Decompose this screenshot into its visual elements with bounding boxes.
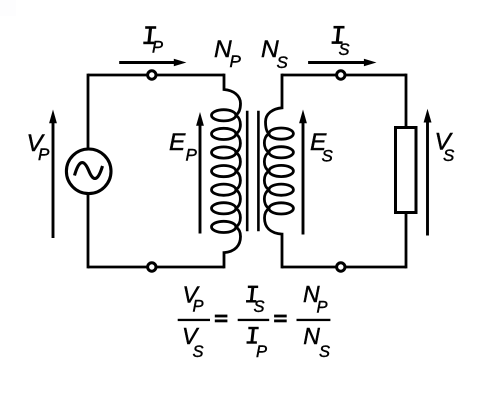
primary winding connector arcs	[236, 115, 241, 227]
label IS	[332, 26, 345, 43]
secondary winding stub top	[266, 74, 283, 134]
svg-text:P: P	[256, 343, 267, 361]
terminal node bottom-left	[148, 263, 156, 271]
secondary winding stub bottom	[265, 208, 283, 268]
primary winding stub bottom	[224, 227, 241, 269]
AC source sine symbol	[75, 163, 103, 179]
load resistor RL	[396, 128, 417, 213]
equation numerator IS	[246, 286, 258, 302]
primary winding stub top	[224, 74, 241, 116]
wire left vertical lower	[87, 194, 90, 269]
svg-text:S: S	[319, 343, 330, 361]
svg-text:S: S	[339, 41, 350, 59]
svg-text:P: P	[38, 145, 50, 164]
svg-text:P: P	[193, 298, 204, 316]
arrow ES (emf secondary)	[302, 123, 305, 235]
terminal node top-right	[337, 71, 345, 79]
wire top-left (source to primary winding)	[88, 74, 224, 77]
equation equals sign 1	[215, 315, 228, 318]
svg-text:S: S	[443, 146, 455, 165]
primary winding turn 1	[212, 110, 236, 121]
svg-text:N: N	[303, 323, 320, 349]
primary winding turn 4	[212, 166, 236, 177]
wire right vertical upper	[405, 74, 408, 129]
secondary winding turn 5	[269, 203, 293, 214]
label IP	[143, 27, 156, 44]
svg-text:P: P	[186, 146, 198, 165]
primary winding turn 7	[212, 221, 236, 232]
svg-text:S: S	[322, 146, 334, 165]
secondary winding connector arcs	[264, 134, 269, 209]
wire bottom-left (source to primary winding)	[88, 266, 224, 269]
secondary winding turn 4	[269, 184, 293, 195]
arrow VS (voltage)	[426, 122, 429, 236]
terminal node top-left	[148, 71, 156, 79]
svg-text:P: P	[230, 52, 242, 71]
svg-text:S: S	[254, 298, 265, 316]
svg-text:S: S	[277, 53, 289, 72]
svg-text:S: S	[193, 343, 204, 361]
AC source V1 circle	[66, 149, 111, 194]
secondary winding turn 1	[269, 128, 293, 139]
wire right vertical lower	[405, 211, 408, 268]
wire bottom-right (secondary winding to load)	[282, 266, 406, 269]
equation equals sign 2	[274, 315, 287, 318]
transformer core line right	[257, 111, 260, 232]
secondary winding turn 3	[269, 165, 293, 176]
equation fraction bar 3	[297, 319, 331, 321]
primary winding turn 5	[212, 184, 236, 195]
svg-text:E: E	[169, 129, 186, 156]
equation fraction bar 2	[238, 319, 270, 321]
arrow IP (current direction)	[119, 61, 175, 64]
primary winding turn 6	[212, 203, 236, 214]
transformer core line left	[246, 111, 249, 232]
primary winding turn 2	[212, 128, 236, 139]
arrow VP (voltage)	[52, 123, 55, 239]
primary winding turn 3	[212, 147, 236, 158]
arrow IS (current direction)	[308, 61, 365, 64]
svg-text:P: P	[152, 39, 163, 57]
svg-text:P: P	[317, 299, 328, 317]
secondary winding turn 2	[269, 147, 293, 158]
terminal node bottom-right	[337, 263, 345, 271]
arrow EP (emf primary)	[199, 125, 202, 234]
wire top-right (secondary winding to load)	[282, 74, 406, 77]
equation denominator IP	[247, 327, 259, 343]
equation fraction bar 1	[178, 319, 210, 321]
wire left vertical upper	[87, 74, 90, 150]
